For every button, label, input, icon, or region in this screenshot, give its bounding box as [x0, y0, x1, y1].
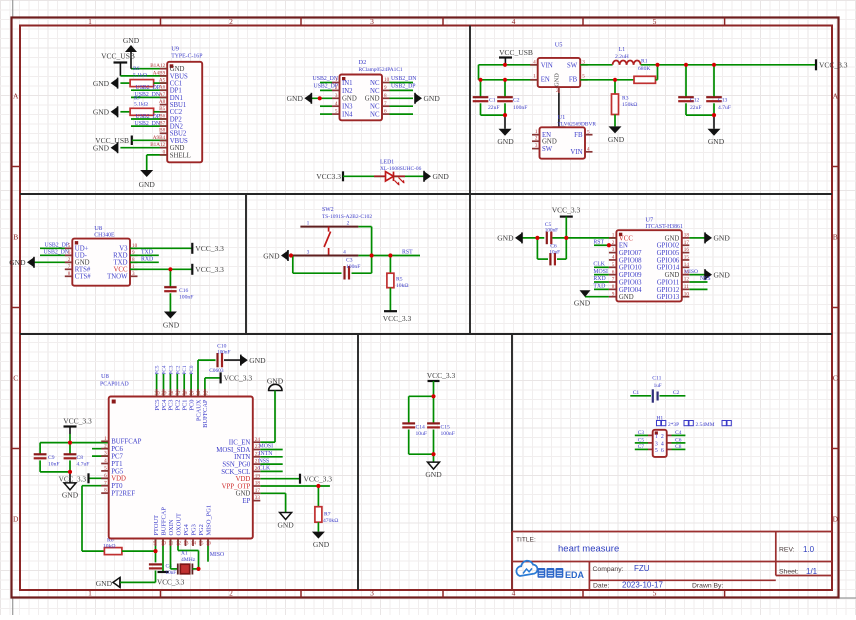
svg-text:3: 3 — [335, 93, 338, 99]
svg-text:A8: A8 — [159, 99, 166, 105]
svg-text:VDD: VDD — [111, 476, 126, 483]
svg-text:GND: GND — [170, 66, 185, 73]
svg-text:1: 1 — [88, 589, 92, 598]
svg-text:IN4: IN4 — [342, 112, 353, 119]
svg-text:TXD: TXD — [593, 284, 605, 290]
svg-text:1: 1 — [88, 17, 92, 26]
svg-text:30: 30 — [154, 391, 160, 397]
svg-text:TS-1091S-A2B2-C102: TS-1091S-A2B2-C102 — [322, 214, 372, 220]
svg-text:V3: V3 — [119, 246, 128, 253]
svg-text:6: 6 — [384, 109, 387, 115]
svg-text:GND: GND — [433, 172, 450, 181]
svg-text:U8: U8 — [94, 225, 102, 232]
svg-text:DP2: DP2 — [170, 116, 183, 123]
svg-text:7: 7 — [68, 264, 71, 270]
svg-text:GND: GND — [714, 234, 731, 243]
svg-text:VCC_USB: VCC_USB — [101, 52, 135, 61]
svg-text:18: 18 — [684, 233, 690, 239]
svg-text:GND: GND — [313, 540, 330, 549]
svg-text:A7: A7 — [159, 92, 166, 98]
svg-text:B8: B8 — [159, 128, 165, 134]
svg-text:22: 22 — [255, 451, 261, 457]
svg-text:5: 5 — [582, 74, 585, 80]
svg-text:1.0: 1.0 — [803, 545, 815, 554]
svg-text:GND: GND — [93, 144, 110, 153]
svg-text:PG4: PG4 — [183, 523, 190, 535]
svg-text:USB2_DN: USB2_DN — [391, 76, 417, 82]
svg-text:GPIO10: GPIO10 — [619, 265, 642, 272]
svg-text:GND: GND — [714, 270, 731, 279]
svg-text:CC1: CC1 — [170, 80, 182, 87]
svg-text:2: 2 — [335, 85, 338, 91]
svg-text:GND: GND — [342, 96, 357, 103]
svg-text:4.7uF: 4.7uF — [77, 462, 90, 468]
svg-text:PG3: PG3 — [190, 524, 197, 535]
svg-text:10nF: 10nF — [166, 570, 177, 576]
svg-text:100nF: 100nF — [179, 295, 193, 301]
svg-text:2: 2 — [535, 136, 538, 142]
svg-text:VBUS: VBUS — [170, 138, 188, 145]
svg-text:23: 23 — [255, 444, 261, 450]
svg-text:7: 7 — [104, 480, 107, 486]
svg-text:USB2_DP: USB2_DP — [136, 114, 160, 120]
svg-text:VCC_3.3: VCC_3.3 — [552, 206, 581, 215]
svg-text:B1A12: B1A12 — [150, 63, 165, 69]
svg-text:C2: C2 — [673, 390, 680, 396]
svg-text:C13: C13 — [718, 98, 728, 104]
svg-text:TNOW: TNOW — [107, 274, 128, 281]
svg-text:33: 33 — [255, 495, 261, 501]
svg-text:GPIO06: GPIO06 — [657, 257, 680, 264]
svg-text:2: 2 — [612, 240, 615, 246]
svg-text:C8: C8 — [675, 444, 682, 450]
svg-text:24: 24 — [255, 437, 261, 443]
svg-text:Drawn By:: Drawn By: — [692, 582, 723, 589]
svg-text:PG5: PG5 — [111, 468, 124, 475]
svg-text:TITLE:: TITLE: — [516, 537, 536, 544]
svg-text:4: 4 — [612, 255, 615, 261]
svg-text:20: 20 — [255, 466, 261, 472]
svg-text:C5: C5 — [638, 437, 645, 443]
svg-text:100nF: 100nF — [441, 431, 455, 437]
svg-text:U7: U7 — [645, 217, 654, 224]
svg-text:RTS#: RTS# — [75, 267, 91, 274]
svg-text:VBUS: VBUS — [170, 73, 188, 80]
svg-text:GPIO09: GPIO09 — [619, 272, 642, 279]
svg-text:TXD: TXD — [141, 250, 153, 256]
svg-text:L1: L1 — [619, 47, 626, 53]
svg-text:100nF: 100nF — [513, 105, 527, 111]
svg-text:GND: GND — [277, 521, 294, 530]
svg-text:1: 1 — [612, 233, 615, 239]
svg-text:15: 15 — [684, 255, 690, 261]
svg-text:C8: C8 — [77, 455, 84, 461]
svg-text:MISO: MISO — [210, 552, 225, 558]
svg-text:C3: C3 — [346, 258, 353, 264]
svg-text:NC: NC — [370, 88, 380, 95]
svg-text:22uF: 22uF — [690, 105, 702, 111]
svg-text:5: 5 — [653, 589, 657, 598]
svg-text:NSS: NSS — [700, 276, 711, 282]
svg-text:9: 9 — [384, 85, 387, 91]
svg-text:GND: GND — [542, 139, 557, 146]
svg-text:1uF: 1uF — [654, 383, 662, 389]
svg-text:MOSI_SDA: MOSI_SDA — [216, 447, 250, 454]
svg-text:C7: C7 — [638, 444, 645, 450]
svg-text:100nF: 100nF — [545, 228, 558, 234]
svg-text:RClamp0524PA1C1: RClamp0524PA1C1 — [359, 67, 403, 73]
svg-text:TYPE-C-16P: TYPE-C-16P — [171, 54, 202, 60]
svg-text:PG2: PG2 — [198, 524, 205, 535]
svg-text:U8: U8 — [101, 373, 109, 380]
svg-text:GND: GND — [574, 299, 591, 308]
svg-text:C15: C15 — [441, 424, 451, 430]
svg-text:5: 5 — [68, 243, 71, 249]
svg-text:13: 13 — [684, 269, 690, 275]
svg-text:RXD: RXD — [593, 276, 605, 282]
svg-text:GND: GND — [424, 94, 441, 103]
svg-text:D: D — [833, 515, 839, 524]
svg-text:VDD: VDD — [236, 476, 251, 483]
svg-text:heart measure: heart measure — [558, 544, 619, 555]
svg-text:UD-: UD- — [75, 253, 88, 260]
svg-text:CC2: CC2 — [170, 109, 183, 116]
svg-text:C14: C14 — [416, 424, 426, 430]
svg-text:REV:: REV: — [779, 547, 795, 554]
svg-text:VCC_3.3: VCC_3.3 — [195, 265, 224, 274]
svg-text:C4: C4 — [675, 430, 682, 436]
svg-text:PC0: PC0 — [189, 365, 195, 374]
svg-text:A: A — [833, 92, 839, 101]
svg-text:GND: GND — [263, 251, 280, 260]
svg-text:IN2: IN2 — [342, 88, 353, 95]
svg-text:PT1: PT1 — [111, 461, 122, 468]
svg-text:C: C — [13, 374, 18, 383]
svg-text:GND: GND — [93, 108, 110, 117]
svg-text:C16: C16 — [179, 288, 189, 294]
svg-text:17: 17 — [684, 240, 690, 246]
svg-text:21: 21 — [255, 459, 261, 465]
svg-text:GND: GND — [96, 579, 113, 588]
svg-text:6: 6 — [68, 250, 71, 256]
svg-text:11: 11 — [684, 284, 689, 290]
svg-text:GPIO11: GPIO11 — [657, 279, 679, 286]
svg-text:NC: NC — [370, 80, 380, 87]
svg-text:3: 3 — [132, 271, 135, 277]
svg-text:BUFFCAP: BUFFCAP — [160, 507, 167, 536]
svg-text:5: 5 — [587, 129, 590, 135]
svg-text:4: 4 — [343, 249, 346, 255]
svg-text:5.1kΩ: 5.1kΩ — [133, 73, 147, 79]
svg-text:PC4: PC4 — [162, 365, 168, 374]
svg-text:10: 10 — [684, 291, 690, 297]
svg-text:8: 8 — [104, 488, 107, 494]
svg-text:3: 3 — [370, 589, 374, 598]
svg-text:C2: C2 — [513, 98, 520, 104]
svg-text:1: 1 — [535, 129, 538, 135]
svg-text:GND: GND — [139, 180, 156, 189]
svg-text:1: 1 — [533, 74, 536, 80]
svg-text:INTN: INTN — [259, 451, 274, 457]
svg-text:3: 3 — [307, 249, 310, 255]
svg-text:28: 28 — [168, 391, 174, 397]
svg-text:SHELL: SHELL — [170, 152, 191, 159]
svg-text:2: 2 — [347, 220, 350, 226]
svg-text:B6: B6 — [159, 113, 165, 119]
svg-text:R5: R5 — [396, 277, 403, 283]
svg-text:GPIO08: GPIO08 — [619, 257, 642, 264]
svg-text:VCC_3.3: VCC_3.3 — [383, 314, 412, 323]
svg-text:FB: FB — [574, 132, 583, 139]
svg-text:GND: GND — [665, 272, 680, 279]
svg-text:MISO_PG1: MISO_PG1 — [205, 505, 212, 536]
svg-text:GND: GND — [123, 36, 140, 45]
svg-text:GND: GND — [425, 470, 442, 479]
svg-text:1: 1 — [104, 436, 107, 442]
svg-text:VCC: VCC — [114, 267, 128, 274]
svg-text:PC3: PC3 — [168, 365, 174, 374]
svg-text:SW: SW — [542, 146, 553, 153]
svg-text:8: 8 — [384, 93, 387, 99]
svg-text:0: 0 — [163, 149, 166, 155]
svg-text:UD+: UD+ — [75, 246, 89, 253]
svg-text:SCK_SCL: SCK_SCL — [221, 469, 250, 476]
svg-text:7: 7 — [612, 277, 615, 283]
svg-text:3: 3 — [655, 441, 658, 447]
svg-text:5: 5 — [612, 262, 615, 268]
svg-text:A: A — [13, 92, 19, 101]
svg-text:3: 3 — [370, 17, 374, 26]
svg-text:22uF: 22uF — [488, 105, 500, 111]
svg-text:2.54MM: 2.54MM — [696, 422, 715, 428]
svg-text:GPIO14: GPIO14 — [657, 265, 680, 272]
svg-text:GND: GND — [365, 96, 380, 103]
svg-text:15: 15 — [198, 541, 204, 547]
svg-text:TLV62569DBVR: TLV62569DBVR — [558, 122, 597, 128]
svg-text:CLK: CLK — [593, 262, 605, 268]
svg-text:PT0: PT0 — [111, 483, 123, 490]
svg-text:RST: RST — [593, 239, 604, 245]
svg-text:GPIO07: GPIO07 — [619, 250, 642, 257]
svg-text:NC: NC — [370, 112, 380, 119]
svg-text:SBU1: SBU1 — [170, 102, 187, 109]
svg-text:4.7uF: 4.7uF — [718, 105, 731, 111]
svg-text:Sheet:: Sheet: — [779, 569, 799, 576]
svg-text:680K: 680K — [638, 66, 650, 72]
svg-text:470kΩ: 470kΩ — [323, 518, 338, 524]
svg-text:ITCAST-H3861: ITCAST-H3861 — [645, 224, 683, 230]
svg-text:16: 16 — [684, 247, 690, 253]
svg-text:USB2_DP: USB2_DP — [391, 84, 415, 90]
svg-text:C0603: C0603 — [209, 368, 224, 374]
svg-text:VCC_3.3: VCC_3.3 — [157, 579, 185, 587]
svg-text:PC2: PC2 — [175, 365, 181, 374]
svg-text:LED1: LED1 — [380, 160, 394, 166]
svg-text:2: 2 — [104, 443, 107, 449]
svg-text:PTOUT: PTOUT — [153, 515, 160, 536]
svg-text:3: 3 — [612, 247, 615, 253]
svg-text:C1: C1 — [633, 390, 640, 396]
svg-text:U9: U9 — [171, 46, 179, 53]
svg-text:B5: B5 — [159, 106, 165, 112]
svg-text:10uF: 10uF — [549, 250, 560, 256]
svg-text:10kΩ: 10kΩ — [103, 544, 116, 550]
svg-text:27: 27 — [175, 391, 181, 397]
svg-text:4: 4 — [512, 17, 516, 26]
svg-text:2*3P: 2*3P — [668, 422, 679, 428]
svg-text:13: 13 — [183, 541, 189, 547]
svg-text:14: 14 — [191, 541, 197, 547]
svg-text:VCC_3.3: VCC_3.3 — [63, 417, 92, 426]
svg-text:1: 1 — [655, 434, 658, 440]
svg-text:R1: R1 — [641, 59, 648, 65]
svg-text:5: 5 — [335, 109, 338, 115]
svg-text:TXD: TXD — [114, 260, 128, 267]
svg-text:IN3: IN3 — [342, 104, 353, 111]
svg-text:2: 2 — [661, 434, 664, 440]
svg-text:GPIO04: GPIO04 — [619, 287, 642, 294]
svg-text:VCC_USB: VCC_USB — [499, 48, 533, 57]
svg-text:4: 4 — [335, 101, 338, 107]
svg-text:D2: D2 — [359, 59, 367, 66]
svg-text:1: 1 — [335, 77, 338, 83]
svg-text:DN2: DN2 — [170, 124, 184, 131]
svg-text:10: 10 — [384, 77, 390, 83]
svg-text:IIC_EN: IIC_EN — [229, 440, 251, 447]
svg-text:C9: C9 — [48, 455, 55, 461]
svg-text:EP: EP — [242, 498, 250, 505]
svg-text:12: 12 — [684, 277, 690, 283]
svg-text:XL-1608SUHC-06: XL-1608SUHC-06 — [380, 166, 422, 172]
svg-text:PT2REF: PT2REF — [111, 491, 135, 498]
svg-text:2.2uH: 2.2uH — [615, 54, 629, 60]
svg-text:2: 2 — [68, 257, 71, 263]
svg-text:GND: GND — [708, 137, 725, 146]
svg-text:SW: SW — [567, 63, 578, 70]
svg-text:USB2_DN: USB2_DN — [135, 121, 161, 127]
svg-text:10nF: 10nF — [48, 462, 60, 468]
svg-text:VPP_OTP: VPP_OTP — [222, 483, 251, 490]
svg-text:CTS#: CTS# — [75, 274, 91, 281]
svg-text:VCC_3.3: VCC_3.3 — [427, 371, 456, 380]
svg-text:GND: GND — [497, 137, 514, 146]
svg-text:C6: C6 — [550, 244, 557, 250]
svg-text:B: B — [13, 233, 18, 242]
svg-text:GND: GND — [249, 356, 266, 365]
svg-text:25: 25 — [189, 391, 195, 397]
svg-text:GND: GND — [170, 145, 185, 152]
svg-text:GPIO03: GPIO03 — [619, 279, 642, 286]
svg-text:5: 5 — [653, 17, 657, 26]
svg-text:GPIO13: GPIO13 — [657, 294, 680, 301]
svg-text:SW2: SW2 — [322, 207, 334, 213]
svg-text:1/1: 1/1 — [806, 567, 818, 576]
svg-text:100nF: 100nF — [217, 350, 230, 356]
svg-text:4MHz: 4MHz — [181, 557, 196, 563]
svg-text:VCC_3.3: VCC_3.3 — [59, 475, 87, 483]
svg-text:GND: GND — [619, 294, 634, 301]
svg-text:26: 26 — [182, 391, 188, 397]
svg-text:FB: FB — [569, 77, 578, 84]
svg-text:BUFFCAP: BUFFCAP — [111, 439, 141, 446]
svg-text:GND: GND — [9, 258, 26, 267]
svg-text:100nF: 100nF — [346, 264, 360, 270]
svg-text:10kΩ: 10kΩ — [396, 283, 409, 289]
svg-text:GND: GND — [287, 94, 304, 103]
svg-text:32: 32 — [203, 391, 209, 397]
svg-text:4: 4 — [104, 458, 107, 464]
svg-text:A9B4: A9B4 — [153, 135, 166, 141]
svg-text:VCC: VCC — [619, 235, 633, 242]
svg-text:11: 11 — [168, 541, 173, 547]
svg-text:INTN: INTN — [234, 454, 250, 461]
svg-text:GND: GND — [163, 321, 180, 330]
svg-text:4: 4 — [533, 60, 536, 66]
svg-text:Company:: Company: — [593, 566, 624, 573]
svg-text:GND: GND — [75, 260, 90, 267]
svg-text:B: B — [833, 233, 838, 242]
svg-text:C11: C11 — [652, 376, 661, 382]
svg-text:16: 16 — [206, 541, 212, 547]
svg-text:DP1: DP1 — [170, 88, 182, 95]
svg-text:CH340E: CH340E — [94, 233, 115, 239]
svg-text:19: 19 — [255, 473, 261, 479]
svg-text:4: 4 — [661, 441, 664, 447]
svg-text:DN1: DN1 — [170, 95, 183, 102]
svg-text:U5: U5 — [555, 42, 563, 49]
svg-text:R7: R7 — [324, 512, 331, 518]
svg-text:3: 3 — [535, 143, 538, 149]
svg-text:GND: GND — [608, 135, 625, 144]
svg-text:SSN_PG0: SSN_PG0 — [222, 462, 251, 469]
svg-text:150kΩ: 150kΩ — [622, 102, 637, 108]
svg-text:29: 29 — [161, 391, 167, 397]
svg-text:CLK: CLK — [259, 466, 271, 472]
svg-text:C1: C1 — [489, 98, 496, 104]
svg-text:NC: NC — [370, 104, 380, 111]
svg-text:FZU: FZU — [634, 564, 650, 573]
svg-text:C12: C12 — [690, 98, 700, 104]
svg-text:VIN: VIN — [570, 149, 582, 156]
svg-text:4: 4 — [587, 146, 590, 152]
svg-text:8: 8 — [612, 284, 615, 290]
svg-text:PC6: PC6 — [111, 446, 123, 453]
svg-text:VIN: VIN — [541, 63, 553, 70]
svg-text:EN: EN — [619, 243, 628, 250]
svg-text:VCC_3.3: VCC_3.3 — [304, 475, 333, 484]
svg-text:OXIN: OXIN — [168, 519, 175, 535]
svg-text:1: 1 — [307, 220, 310, 226]
svg-text:PC7: PC7 — [111, 454, 123, 461]
svg-text:PC1: PC1 — [182, 365, 188, 374]
svg-text:EN: EN — [541, 77, 550, 84]
svg-text:MOSI: MOSI — [593, 269, 608, 275]
svg-text:6: 6 — [661, 448, 664, 454]
svg-text:6: 6 — [612, 269, 615, 275]
svg-text:USB2_DP: USB2_DP — [136, 85, 160, 91]
svg-text:GPIO05: GPIO05 — [657, 250, 680, 257]
svg-text:X1: X1 — [181, 551, 188, 557]
svg-text:C6: C6 — [675, 437, 682, 443]
svg-text:14: 14 — [684, 262, 690, 268]
svg-text:GND: GND — [62, 491, 79, 500]
svg-text:GND: GND — [554, 73, 561, 87]
svg-text:D: D — [13, 515, 19, 524]
svg-text:GND: GND — [236, 491, 251, 498]
svg-text:BUFFCAP: BUFFCAP — [202, 399, 209, 428]
svg-text:VCC3.3: VCC3.3 — [316, 172, 341, 181]
svg-text:VCC_3.3: VCC_3.3 — [224, 374, 253, 383]
